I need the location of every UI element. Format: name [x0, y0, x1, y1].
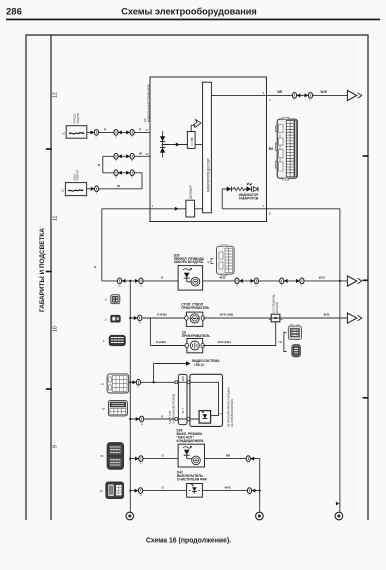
- wire inside D6 upper loop: [191, 382, 219, 415]
- svg-text:3: 3: [301, 285, 303, 287]
- svg-text:W-B (НВ): W-B (НВ): [220, 313, 233, 317]
- D30 label: [174, 253, 205, 264]
- wire L2 row: [87, 188, 142, 190]
- svg-text:G: G: [162, 485, 165, 489]
- connector icon E: [102, 401, 127, 416]
- label W-B top right: [321, 90, 328, 94]
- svg-text:3: 3: [152, 204, 154, 208]
- svg-text:2: 2: [310, 100, 312, 102]
- wire decoder feed riser: [101, 209, 103, 281]
- node trunk y318: [129, 317, 131, 319]
- off-page arrow y318: [347, 313, 361, 323]
- connector icon D: [101, 374, 129, 393]
- label G-(HB) y318: [157, 313, 167, 317]
- svg-text:41-У: 41-У: [183, 408, 185, 413]
- svg-text:W-B: W-B: [321, 90, 328, 94]
- svg-text:17: 17: [139, 322, 142, 324]
- svg-text:9: 9: [53, 445, 59, 448]
- pin 2 label: [263, 204, 272, 215]
- video system reference arrow: [154, 361, 191, 366]
- right border tick y398: [363, 397, 369, 399]
- grid number 11: [53, 216, 59, 221]
- wire row2: [103, 155, 150, 157]
- arrow mark on right trunk: [336, 502, 339, 506]
- svg-text:ДЕКОДЕР: ДЕКОДЕР: [189, 185, 193, 199]
- svg-text:17: 17: [140, 463, 143, 465]
- grid number 9: [53, 445, 59, 448]
- label G D30 row: [161, 276, 164, 280]
- label W-B after D30: [219, 276, 226, 280]
- svg-text:26: 26: [146, 153, 149, 156]
- wire decoder feed horizontal: [102, 208, 150, 210]
- E6 physical connector drawing: [276, 117, 298, 180]
- connector pair D30 row 1: [235, 278, 259, 287]
- svg-text:B: B: [98, 163, 101, 167]
- terminal ground left: [126, 512, 134, 520]
- diode D_a: [160, 131, 165, 157]
- C8 label: [182, 330, 211, 337]
- label G-(HB) C8: [156, 340, 166, 344]
- wire indicator row to block edge: [222, 208, 266, 210]
- svg-text:Схемы электрооборудования: Схемы электрооборудования: [121, 7, 257, 17]
- svg-text:G-(НВ): G-(НВ): [157, 313, 167, 317]
- svg-text:КОМБИНАЦИЯ ПРИБОРОВ: КОМБИНАЦИЯ ПРИБОРОВ: [146, 84, 150, 122]
- svg-text:W-B: W-B: [319, 276, 326, 280]
- lamp L1 label: [63, 112, 80, 135]
- svg-text:D6 ПЕРЕКЛЮЧАТЕЛЬ ПЕРЕДАЧ: D6 ПЕРЕКЛЮЧАТЕЛЬ ПЕРЕДАЧ: [227, 387, 231, 427]
- wire D30 row right: [203, 280, 348, 282]
- pin 13 label: [263, 91, 271, 102]
- wire diode junction to IC: [163, 143, 188, 147]
- connector D36 row: [135, 456, 143, 465]
- lamp L2 label: [62, 169, 80, 192]
- svg-text:12: 12: [101, 383, 104, 386]
- connector y318: [134, 315, 142, 324]
- page header: title: [121, 7, 257, 17]
- wire D42 row: [130, 490, 186, 492]
- wire top-right external: [267, 94, 348, 96]
- indicator label: [239, 193, 260, 201]
- svg-text:ПРИКУРИВАТЕЛЬ: ПРИКУРИВАТЕЛЬ: [182, 334, 211, 338]
- wire microprocessor to top-right exit: [211, 94, 266, 96]
- connector on L2 wire: [91, 186, 99, 195]
- connector pair row2: [114, 153, 134, 162]
- node trunk y490: [129, 490, 131, 492]
- label W-B right D30: [319, 276, 326, 280]
- spiral cable label vertical: [168, 394, 175, 424]
- right border tick y156: [363, 155, 369, 157]
- D30 aux connector icon: [217, 245, 235, 276]
- switch D36 MAX HOT: [178, 444, 204, 467]
- svg-text:ЕМУ: ЕМУ: [183, 376, 185, 381]
- label B: [98, 163, 101, 167]
- label W-B D42: [225, 485, 232, 489]
- D42 label: [177, 470, 208, 481]
- connector D42 right: [247, 488, 255, 497]
- svg-text:8: 8: [131, 161, 133, 163]
- wire D30 row left: [102, 280, 178, 282]
- svg-text:12: 12: [140, 285, 143, 287]
- spiral cable box: [178, 374, 187, 424]
- svg-text:ТАБЛ. УПР.: ТАБЛ. УПР.: [168, 410, 172, 424]
- svg-text:W-B: W-B: [225, 485, 232, 489]
- connector pair D30 row 2: [280, 278, 304, 287]
- label W row2: [139, 151, 142, 155]
- label P2: [139, 127, 141, 131]
- connector icon F: [101, 443, 124, 470]
- svg-text:2: 2: [131, 137, 133, 139]
- microprocessor U1: [203, 82, 212, 213]
- off-page arrow D30 row: [347, 276, 361, 286]
- lamp L1 front clearance: [66, 126, 87, 139]
- wire C8 row: [150, 345, 187, 347]
- svg-text:10: 10: [115, 177, 118, 179]
- svg-text:НА РУЛЕВОМ КОЛЕСЕ: НА РУЛЕВОМ КОЛЕСЕ: [230, 399, 234, 427]
- svg-text:Схема 16 (продолжение).: Схема 16 (продолжение).: [146, 538, 231, 545]
- svg-text:5: 5: [263, 91, 265, 95]
- pin 27 label: [146, 129, 149, 132]
- svg-text:G: G: [94, 265, 97, 269]
- svg-text:P: P: [139, 127, 141, 131]
- connector D36 right: [246, 456, 254, 465]
- svg-text:3: 3: [281, 285, 283, 287]
- connector y419: [136, 416, 144, 426]
- node video riser junction: [153, 381, 155, 383]
- svg-text:6: 6: [137, 387, 139, 389]
- svg-text:W: W: [117, 184, 120, 188]
- svg-text:1Е: 1Е: [100, 490, 103, 493]
- svg-text:Е6: Е6: [269, 147, 274, 151]
- wire C8 row right: [203, 322, 276, 346]
- E6 connector label: [269, 147, 274, 151]
- wire right trunk from indicator exit: [267, 209, 340, 512]
- svg-text:11: 11: [119, 285, 122, 287]
- grid number 12: [53, 92, 59, 98]
- junction connector box: [269, 314, 283, 322]
- svg-text:W-B: W-B: [324, 313, 331, 317]
- ashtray illumination lamp box: [185, 312, 205, 326]
- lamp L2 rear clearance: [65, 183, 86, 196]
- right aux bracket: [279, 332, 287, 351]
- cigarette lighter C8: [185, 339, 204, 353]
- svg-text:10: 10: [53, 326, 59, 332]
- label W-B (HB) y318: [220, 313, 233, 317]
- combination meter block E6: [150, 77, 267, 222]
- svg-text:12: 12: [53, 92, 59, 98]
- svg-text:ЗАБОРА ВОЗДУХА: ЗАБОРА ВОЗДУХА: [174, 260, 204, 264]
- label HB inner: [220, 414, 224, 416]
- svg-text:ГАБАРИТОВ: ГАБАРИТОВ: [239, 197, 259, 201]
- svg-text:1: 1: [95, 137, 97, 139]
- connector pair top right: [292, 93, 312, 102]
- frame: right border: [367, 35, 369, 520]
- D6 LED box: [199, 411, 211, 424]
- svg-text:ПРИКУРИВАТЕЛЬ: ПРИКУРИВАТЕЛЬ: [181, 306, 210, 310]
- label G D42: [162, 485, 165, 489]
- steering wheel switch D6 box: [190, 374, 223, 426]
- video system label: [192, 359, 220, 367]
- label G y419: [161, 414, 164, 418]
- grid number 10: [53, 326, 59, 332]
- svg-text:9: 9: [115, 137, 117, 139]
- svg-text:Б: Б: [208, 261, 210, 264]
- pin circles y419: [175, 418, 190, 421]
- svg-text:1і-: 1і-: [105, 318, 108, 321]
- svg-text:7: 7: [294, 100, 296, 102]
- page header: page number 286: [6, 7, 22, 18]
- junction box label vertical: [271, 294, 279, 313]
- svg-text:ОЧИСТИТЕЛЯ ФАР: ОЧИСТИТЕЛЯ ФАР: [177, 477, 208, 481]
- svg-text:13: 13: [140, 495, 143, 497]
- right aux connector icon 2: [292, 345, 301, 357]
- svg-text:РАЗЪЕМ: РАЗЪЕМ: [275, 302, 279, 313]
- frame: inner left border: [50, 35, 52, 520]
- wire row y382: [130, 381, 190, 383]
- svg-text:A: A: [269, 98, 271, 102]
- svg-text:11: 11: [53, 216, 59, 221]
- connector icon C: [103, 335, 125, 345]
- connector on D30 row right of trunk: [135, 278, 143, 287]
- svg-text:2-: 2-: [103, 340, 105, 343]
- svg-text:W-B: W-B: [219, 276, 226, 280]
- terminal ground right: [335, 512, 343, 520]
- label P: [104, 127, 106, 131]
- svg-text:27: 27: [146, 129, 149, 132]
- wire IC to power arrow: [191, 125, 195, 131]
- D36 label: [177, 428, 205, 443]
- connector on D30 row left: [117, 278, 125, 287]
- wire video riser: [153, 364, 155, 383]
- svg-text:P: P: [104, 127, 106, 131]
- label G riser: [94, 265, 97, 269]
- connector y382: [133, 379, 141, 388]
- header rule: [6, 19, 380, 21]
- frame: top border: [25, 34, 368, 36]
- E6 block vertical label: [143, 84, 151, 122]
- power arrow symbol: [194, 120, 202, 128]
- wire D36 row: [130, 458, 178, 460]
- section tick y149: [46, 148, 52, 150]
- switch D42 headlamp cleaner: [187, 484, 203, 498]
- svg-text:КОНДИЦИОНЕРА: КОНДИЦИОНЕРА: [177, 439, 205, 443]
- svg-text:286: 286: [6, 7, 22, 18]
- wire bracket row2-row3: [102, 156, 104, 173]
- connector icon G: [100, 482, 124, 499]
- svg-text:G: G: [161, 276, 164, 280]
- svg-text:БЗ: БЗ: [101, 455, 105, 458]
- svg-text:«ЭЗ-3»: «ЭЗ-3»: [194, 363, 205, 367]
- svg-text:1І-: 1І-: [105, 299, 108, 302]
- caption: [146, 538, 231, 545]
- ground trunk wire: [129, 281, 131, 512]
- wire IC to microprocessor: [195, 144, 203, 146]
- wire row y419: [130, 418, 199, 420]
- svg-text:5: 5: [115, 161, 117, 163]
- indicator resistor: [233, 187, 245, 190]
- section title vertical: [39, 228, 46, 312]
- svg-text:2Е: 2Е: [63, 132, 66, 135]
- wire riser y318 to C8 row: [149, 318, 151, 346]
- indicator open diode: [253, 187, 258, 192]
- terminal ground middle: [256, 512, 264, 520]
- decoder U3: [186, 185, 195, 217]
- svg-text:18: 18: [102, 408, 105, 411]
- connector pair row3: [114, 170, 134, 179]
- connector pair on L1 wire: [114, 130, 134, 139]
- label G D36: [162, 453, 165, 457]
- svg-text:2Х: 2Х: [62, 189, 65, 192]
- pin 3 label: [152, 204, 154, 208]
- frame: outer left border: [25, 35, 27, 520]
- right border tick y280: [363, 279, 369, 281]
- svg-text:НВ: НВ: [279, 341, 283, 344]
- svg-text:ГАБАРИТ: ГАБАРИТ: [77, 169, 80, 181]
- connector icon B: [105, 315, 121, 322]
- wire riser L2 to row3: [141, 173, 143, 189]
- svg-text:7: 7: [247, 463, 249, 465]
- indicator LED: [245, 183, 252, 192]
- svg-text:7: 7: [249, 495, 251, 497]
- diode D_b: [160, 147, 165, 152]
- section tick y271: [46, 271, 52, 273]
- svg-text:G-(НВ): G-(НВ): [156, 340, 166, 344]
- svg-text:ГАБАРИТ: ГАБАРИТ: [77, 112, 80, 124]
- svg-text:5: 5: [255, 285, 257, 287]
- label W L2: [117, 184, 120, 188]
- pin circles y382: [175, 381, 190, 384]
- svg-text:СО СЛЕДУЮЩ.: СО СЛЕДУЮЩ.: [271, 294, 275, 313]
- wire illumination row y318: [130, 317, 186, 319]
- IC (PV) U2: [187, 132, 195, 149]
- node trunk top: [129, 280, 131, 282]
- ashtray lamp label: [181, 303, 210, 310]
- svg-text:G: G: [162, 453, 165, 457]
- svg-text:1: 1: [96, 193, 98, 195]
- section tick y389: [46, 388, 52, 390]
- label BR D36: [226, 453, 231, 457]
- node trunk y419: [129, 418, 131, 420]
- D30 aux connector bracket label: [208, 259, 214, 264]
- svg-text:BR: BR: [226, 453, 231, 457]
- svg-text:G: G: [161, 414, 164, 418]
- svg-text:3: 3: [131, 177, 133, 179]
- terminal ground middle riser: [259, 491, 261, 513]
- node right trunk / D30 row: [339, 280, 341, 282]
- svg-text:B: B: [269, 211, 271, 215]
- node diode junction: [162, 144, 164, 146]
- node trunk y458: [129, 458, 131, 460]
- svg-text:W-B (НВ): W-B (НВ): [218, 340, 231, 344]
- connector D42 row: [135, 488, 143, 497]
- svg-text:ГАБАРИТЫ И ПОДСВЕТКА: ГАБАРИТЫ И ПОДСВЕТКА: [39, 228, 46, 312]
- wire decoder input: [150, 207, 186, 211]
- label BR: [278, 90, 283, 94]
- svg-text:W: W: [139, 151, 142, 155]
- wire row3: [103, 172, 142, 174]
- label W-B (HB) C8: [218, 340, 231, 344]
- svg-text:МИКРОПРОЦЕССОР: МИКРОПРОЦЕССОР: [206, 157, 210, 192]
- connector on L1 wire: [91, 130, 99, 139]
- node trunk y382: [129, 381, 131, 383]
- wire L1 row: [87, 131, 150, 133]
- off-page arrow top right: [347, 90, 361, 100]
- right aux connector icon 1: [288, 325, 301, 339]
- indicator diode: [227, 187, 234, 192]
- svg-text:НВ: НВ: [220, 414, 224, 416]
- wire decoder to microprocessor: [195, 208, 203, 210]
- wire y318 right: [203, 317, 347, 319]
- label W-B y318 right: [324, 313, 331, 317]
- connector icon A: [105, 295, 120, 304]
- faint fold line: [352, 40, 354, 516]
- wire D42 row right: [202, 490, 259, 492]
- svg-text:4: 4: [236, 285, 238, 287]
- switch D30 air intake: [178, 266, 203, 291]
- node D42 riser junction: [259, 490, 261, 492]
- svg-text:2: 2: [263, 204, 265, 208]
- svg-text:IC (ПВ): IC (ПВ): [190, 137, 194, 146]
- indicator lamp branch wire: [222, 189, 227, 209]
- D6 label vertical: [227, 387, 235, 427]
- wire D36 row right: [205, 459, 260, 491]
- svg-text:16: 16: [141, 424, 144, 426]
- svg-text:BR: BR: [278, 90, 283, 94]
- pin 26 label: [146, 153, 149, 156]
